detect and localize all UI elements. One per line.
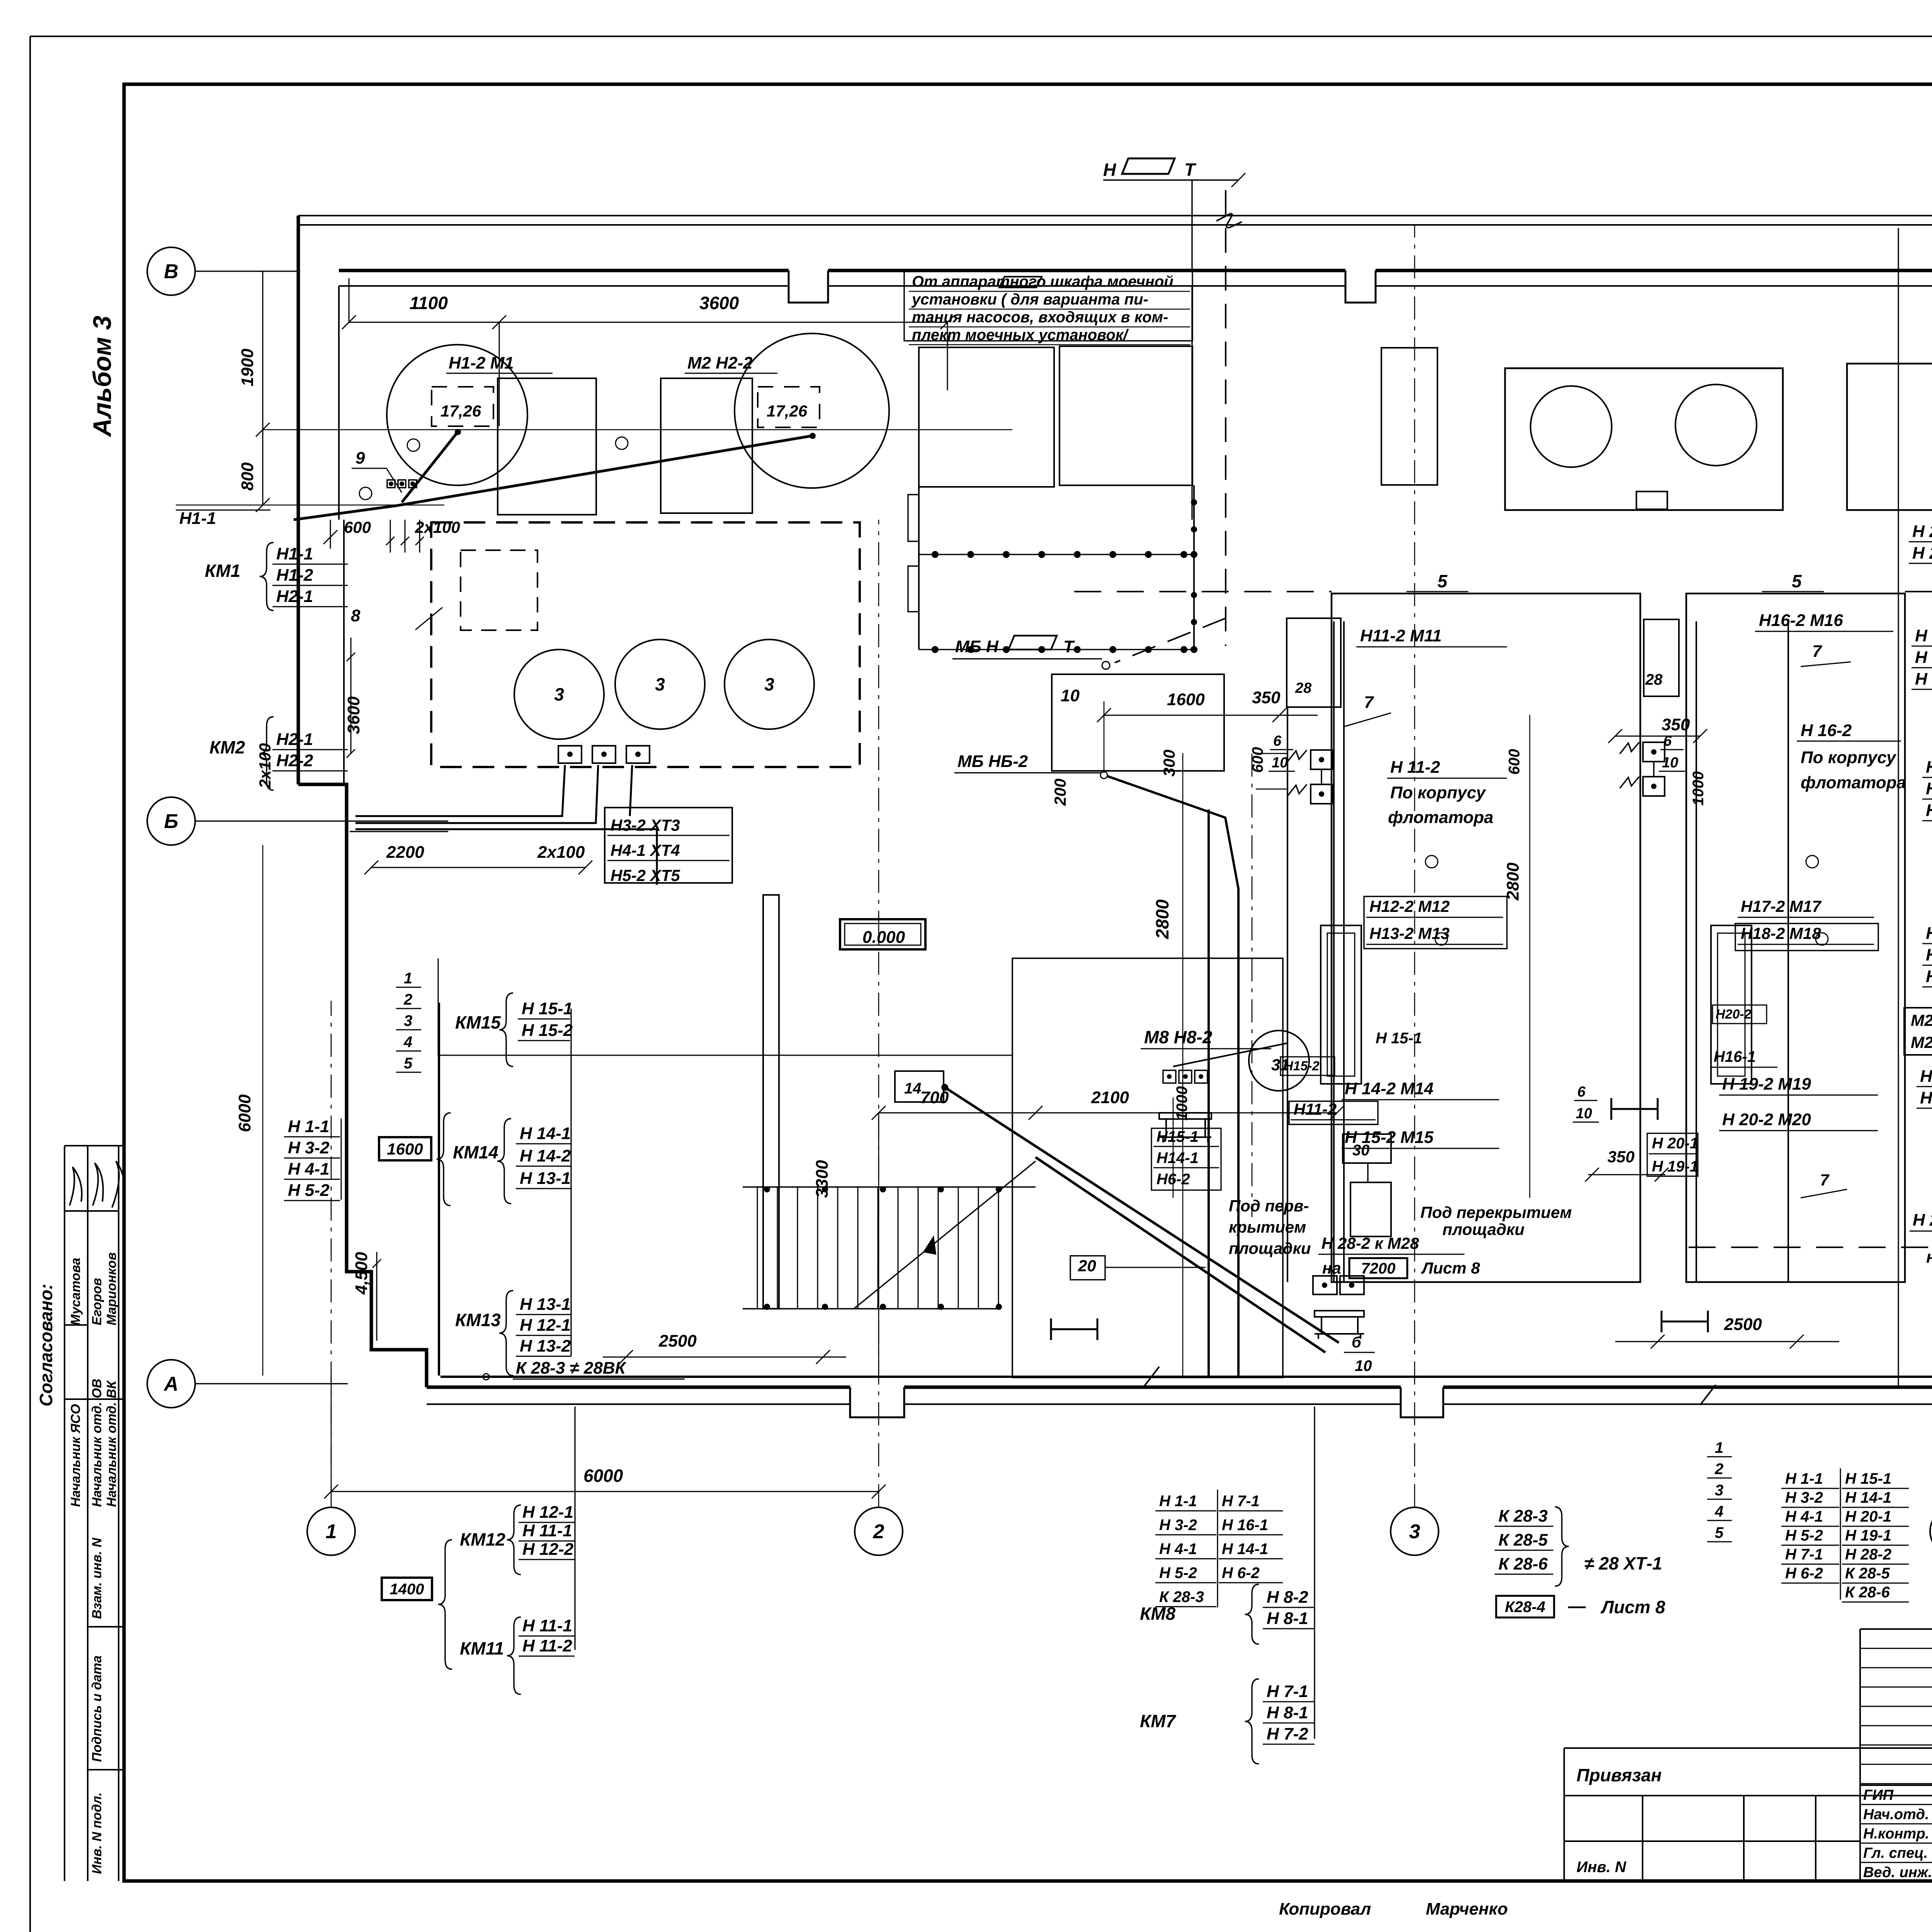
svg-text:14: 14	[904, 1080, 922, 1097]
svg-text:8: 8	[351, 606, 361, 625]
svg-text:2х100: 2х100	[415, 518, 460, 536]
svg-text:Н 11-1: Н 11-1	[522, 1616, 572, 1635]
svg-text:Привязан: Привязан	[1577, 1765, 1662, 1785]
svg-text:Н 20-2: Н 20-2	[1912, 544, 1932, 563]
svg-text:1600: 1600	[1167, 690, 1205, 709]
svg-text:А: А	[163, 1373, 179, 1395]
svg-text:Егоров: Егоров	[90, 1278, 104, 1325]
svg-text:Н 6-2: Н 6-2	[1785, 1565, 1823, 1582]
svg-text:6: 6	[1663, 733, 1672, 749]
svg-text:Н 11-2: Н 11-2	[1390, 758, 1440, 777]
svg-text:Н 19-2: Н 19-2	[1915, 670, 1932, 689]
svg-text:Н16-2: Н16-2	[1920, 1088, 1932, 1107]
svg-text:Н 17-1: Н 17-1	[1926, 779, 1932, 798]
svg-text:М23 Н 23-2: М23 Н 23-2	[1911, 1011, 1932, 1029]
svg-text:7: 7	[1820, 1171, 1830, 1189]
svg-text:Н 18-1: Н 18-1	[1926, 758, 1932, 777]
svg-text:Н 8-1: Н 8-1	[1267, 1609, 1308, 1628]
svg-text:20: 20	[1078, 1257, 1096, 1275]
svg-text:Н 7-1: Н 7-1	[1267, 1682, 1308, 1701]
svg-text:на: на	[1322, 1259, 1341, 1277]
svg-text:Н 12-2: Н 12-2	[522, 1540, 574, 1559]
svg-text:К 28-6: К 28-6	[1498, 1554, 1548, 1573]
svg-text:флотатора: флотатора	[1801, 773, 1906, 792]
svg-text:К28-4: К28-4	[1505, 1599, 1546, 1616]
svg-text:3: 3	[764, 674, 774, 694]
svg-text:Н 13-1: Н 13-1	[520, 1295, 571, 1314]
svg-text:Н 12-1: Н 12-1	[522, 1503, 573, 1522]
svg-text:Н 14-1: Н 14-1	[1222, 1541, 1268, 1558]
svg-text:≠ 28 ХТ-1: ≠ 28 ХТ-1	[1584, 1553, 1662, 1573]
svg-text:К 28-5: К 28-5	[1498, 1531, 1548, 1549]
svg-text:тания насосов, входящих в ком-: тания насосов, входящих в ком-	[912, 309, 1168, 326]
svg-text:700: 700	[920, 1088, 949, 1107]
svg-text:6000: 6000	[583, 1466, 623, 1486]
svg-text:Н 1-1: Н 1-1	[288, 1117, 330, 1136]
svg-text:2: 2	[403, 991, 412, 1008]
svg-text:350: 350	[1662, 715, 1690, 734]
svg-text:7200: 7200	[1361, 1260, 1396, 1277]
svg-text:Н4-1 ХТ4: Н4-1 ХТ4	[611, 841, 680, 859]
svg-text:КМ7: КМ7	[1140, 1711, 1177, 1731]
svg-text:КМ1: КМ1	[205, 561, 240, 581]
svg-text:Н 4-1: Н 4-1	[288, 1160, 330, 1179]
svg-text:Н 11-2: Н 11-2	[522, 1636, 572, 1655]
svg-text:Т: Т	[1063, 637, 1075, 656]
svg-text:Н 15-2 М15: Н 15-2 М15	[1345, 1128, 1434, 1147]
svg-text:Н 17-2: Н 17-2	[1926, 967, 1932, 986]
svg-text:КМ12: КМ12	[460, 1529, 505, 1549]
svg-text:4,500: 4,500	[352, 1252, 371, 1295]
svg-text:Марионков: Марионков	[104, 1252, 119, 1325]
svg-text:Н 20-1: Н 20-1	[1912, 522, 1932, 541]
svg-text:2800: 2800	[1503, 862, 1522, 901]
svg-text:800: 800	[238, 462, 257, 491]
svg-text:2100: 2100	[1091, 1088, 1129, 1107]
svg-text:Н14-1: Н14-1	[1156, 1150, 1199, 1167]
svg-text:Начальник ЯСО: Начальник ЯСО	[68, 1404, 83, 1507]
svg-text:Н 14-1: Н 14-1	[1845, 1489, 1891, 1506]
svg-text:2: 2	[873, 1520, 884, 1543]
svg-text:Н 15-2: Н 15-2	[522, 1021, 573, 1040]
svg-text:плект моечных установок/: плект моечных установок/	[912, 327, 1129, 344]
svg-text:Н 19-1: Н 19-1	[1915, 626, 1932, 645]
svg-text:17,26: 17,26	[440, 402, 481, 420]
svg-text:200: 200	[1051, 779, 1069, 806]
svg-text:Вед. инж.: Вед. инж.	[1863, 1864, 1932, 1881]
svg-text:КМ11: КМ11	[460, 1638, 504, 1658]
svg-text:600: 600	[1249, 747, 1266, 773]
svg-text:Н6-2: Н6-2	[1156, 1171, 1190, 1188]
svg-text:—: —	[1568, 1596, 1586, 1616]
svg-text:М2 Н2-2: М2 Н2-2	[687, 354, 753, 372]
svg-text:Н 16-1: Н 16-1	[1222, 1517, 1268, 1534]
svg-text:Н3-2 ХТ3: Н3-2 ХТ3	[611, 816, 680, 834]
svg-text:1: 1	[326, 1520, 337, 1543]
svg-text:4: 4	[1714, 1503, 1723, 1520]
svg-text:0.000: 0.000	[862, 928, 905, 947]
svg-text:крытием: крытием	[1229, 1218, 1306, 1236]
svg-text:КМ2: КМ2	[209, 737, 245, 757]
svg-text:Н 20-1: Н 20-1	[1652, 1135, 1698, 1152]
svg-text:М8 Н8-2: М8 Н8-2	[1144, 1027, 1213, 1047]
svg-text:Н15-1: Н15-1	[1156, 1128, 1199, 1145]
svg-text:10: 10	[1662, 755, 1678, 771]
svg-text:МБ Н: МБ Н	[955, 637, 999, 656]
svg-text:Н 5-2: Н 5-2	[288, 1181, 330, 1200]
svg-text:площадки: площадки	[1229, 1239, 1311, 1257]
svg-text:2500: 2500	[658, 1332, 697, 1350]
svg-text:Т: Т	[1184, 160, 1197, 180]
svg-text:3600: 3600	[344, 696, 363, 734]
svg-text:флотатора: флотатора	[1388, 808, 1493, 827]
svg-text:28: 28	[1295, 680, 1312, 696]
svg-text:4: 4	[403, 1034, 412, 1051]
svg-text:1: 1	[1715, 1439, 1723, 1456]
svg-text:Инв. N: Инв. N	[1577, 1859, 1626, 1876]
svg-text:Н17-2 М17: Н17-2 М17	[1741, 897, 1821, 915]
svg-text:Н 20-1: Н 20-1	[1845, 1508, 1891, 1525]
svg-text:Н 19-2 М19: Н 19-2 М19	[1722, 1075, 1811, 1094]
svg-text:Н 5-2: Н 5-2	[1785, 1527, 1823, 1544]
svg-text:В: В	[164, 260, 179, 283]
svg-text:3300: 3300	[813, 1160, 832, 1198]
svg-text:Н 7-2: Н 7-2	[1267, 1725, 1308, 1743]
svg-text:Согласовано:: Согласовано:	[36, 1284, 56, 1406]
svg-text:Лист 8: Лист 8	[1421, 1259, 1480, 1277]
svg-text:По корпусу: По корпусу	[1801, 748, 1897, 767]
svg-text:МБ НБ-2: МБ НБ-2	[957, 752, 1028, 771]
svg-text:Н2-1: Н2-1	[276, 730, 313, 749]
svg-text:Марченко: Марченко	[1426, 1900, 1508, 1918]
svg-text:Нач.отд.: Нач.отд.	[1863, 1806, 1929, 1823]
svg-text:7: 7	[1812, 642, 1823, 661]
svg-text:КМ14: КМ14	[453, 1142, 498, 1162]
svg-text:3: 3	[655, 674, 665, 694]
svg-text:5: 5	[1792, 571, 1802, 591]
svg-text:Инв. N подл.: Инв. N подл.	[90, 1792, 104, 1874]
svg-text:Н 6-2: Н 6-2	[1222, 1565, 1260, 1582]
svg-text:Н 14-1: Н 14-1	[520, 1124, 571, 1143]
svg-text:КМ15: КМ15	[455, 1012, 501, 1032]
svg-text:Взам. инв. N: Взам. инв. N	[90, 1537, 104, 1619]
svg-text:Н 18-1: Н 18-1	[1915, 648, 1932, 667]
svg-text:2500: 2500	[1724, 1315, 1762, 1334]
svg-text:Н18-2 М18: Н18-2 М18	[1741, 924, 1821, 942]
svg-text:Под перв-: Под перв-	[1229, 1197, 1309, 1215]
svg-text:Начальник отд. ВК: Начальник отд. ВК	[104, 1380, 119, 1507]
svg-text:Н 4-1: Н 4-1	[1159, 1541, 1197, 1558]
svg-text:1: 1	[404, 970, 412, 987]
svg-text:5: 5	[1437, 571, 1448, 591]
svg-text:10: 10	[1576, 1105, 1592, 1122]
svg-text:Н.контр.: Н.контр.	[1863, 1826, 1929, 1842]
svg-text:Н 16-2: Н 16-2	[1801, 721, 1852, 740]
svg-text:3: 3	[404, 1012, 412, 1029]
svg-text:Н 25-1 к М25: Н 25-1 к М25	[1913, 1211, 1932, 1230]
svg-text:300: 300	[1160, 750, 1178, 777]
svg-text:КМ8: КМ8	[1140, 1604, 1176, 1624]
svg-text:К 28-6: К 28-6	[1845, 1584, 1890, 1601]
svg-text:Н16-1: Н16-1	[1714, 1048, 1756, 1065]
svg-text:Н 17-1: Н 17-1	[1926, 924, 1932, 943]
svg-text:Н20-2: Н20-2	[1716, 1007, 1752, 1022]
svg-text:2800: 2800	[1152, 899, 1172, 939]
svg-text:Н1-2 М1: Н1-2 М1	[449, 354, 514, 372]
svg-text:28: 28	[1645, 671, 1663, 688]
svg-text:Н16-2 М16: Н16-2 М16	[1759, 611, 1843, 630]
svg-text:3: 3	[554, 684, 564, 704]
svg-text:1900: 1900	[238, 349, 257, 386]
svg-text:3: 3	[1715, 1482, 1723, 1499]
svg-text:Н12-2 М12: Н12-2 М12	[1369, 897, 1450, 915]
svg-text:Н 7-1: Н 7-1	[1222, 1493, 1260, 1510]
svg-text:Н 4-1: Н 4-1	[1785, 1508, 1823, 1525]
svg-text:Н1-2: Н1-2	[276, 566, 313, 585]
svg-text:Н 7-1: Н 7-1	[1785, 1546, 1823, 1563]
svg-text:К 28-5: К 28-5	[1845, 1565, 1890, 1582]
svg-text:Н: Н	[1103, 160, 1116, 180]
svg-text:Н 11-1: Н 11-1	[522, 1521, 572, 1540]
svg-text:5: 5	[404, 1055, 413, 1072]
svg-text:Н16-1: Н16-1	[1920, 1067, 1932, 1086]
svg-text:Н 15-1: Н 15-1	[522, 999, 573, 1018]
svg-text:Б: Б	[164, 810, 179, 833]
svg-text:Под перекрытием: Под перекрытием	[1420, 1203, 1572, 1221]
svg-text:Н 15-1: Н 15-1	[1845, 1470, 1891, 1487]
svg-text:К 28-3: К 28-3	[1498, 1507, 1548, 1526]
svg-text:Начальник отд. ОВ: Начальник отд. ОВ	[90, 1379, 104, 1507]
svg-text:Н1-1: Н1-1	[179, 509, 216, 528]
svg-text:600: 600	[1506, 749, 1523, 775]
svg-text:1000: 1000	[1173, 1086, 1190, 1121]
svg-text:Н 3-2: Н 3-2	[288, 1138, 330, 1157]
svg-text:Н 28-2 к М28: Н 28-2 к М28	[1321, 1234, 1419, 1252]
svg-text:Н 13-1: Н 13-1	[520, 1169, 571, 1188]
svg-text:Н 18-2: Н 18-2	[1926, 801, 1932, 820]
svg-text:5: 5	[1715, 1524, 1724, 1541]
svg-text:Н1-1: Н1-1	[276, 544, 313, 563]
svg-text:Н5-2 ХТ5: Н5-2 ХТ5	[611, 866, 680, 884]
svg-text:Н 8-1: Н 8-1	[1267, 1703, 1308, 1722]
svg-text:Н 28-2: Н 28-2	[1845, 1546, 1891, 1563]
svg-text:Н11-2 М11: Н11-2 М11	[1360, 626, 1442, 645]
svg-text:10: 10	[1272, 755, 1288, 771]
svg-text:Н 20-2 М20: Н 20-2 М20	[1722, 1110, 1811, 1129]
svg-text:Н 19-1: Н 19-1	[1652, 1158, 1698, 1175]
svg-text:1400: 1400	[390, 1581, 424, 1598]
svg-text:КМ13: КМ13	[455, 1310, 501, 1330]
svg-text:2х100: 2х100	[537, 843, 585, 862]
svg-text:Н 13-2: Н 13-2	[520, 1337, 571, 1355]
svg-text:М24 н 24-2: М24 н 24-2	[1911, 1033, 1932, 1051]
svg-text:Н 3-2: Н 3-2	[1159, 1517, 1197, 1534]
svg-text:Лист 8: Лист 8	[1600, 1597, 1665, 1617]
svg-text:Подпись и дата: Подпись и дата	[90, 1655, 104, 1762]
svg-text:Гл. спец.: Гл. спец.	[1863, 1845, 1928, 1861]
svg-text:3600: 3600	[699, 293, 739, 313]
svg-text:9: 9	[355, 449, 365, 468]
svg-text:17,26: 17,26	[767, 402, 808, 420]
svg-text:Альбом 3: Альбом 3	[88, 316, 116, 437]
svg-text:7: 7	[1364, 693, 1374, 712]
svg-text:1600: 1600	[387, 1140, 423, 1158]
svg-text:площадки: площадки	[1442, 1220, 1524, 1238]
svg-text:Н 15-1: Н 15-1	[1376, 1030, 1422, 1047]
svg-text:К 28-3 ≠ 28ВК: К 28-3 ≠ 28ВК	[516, 1359, 627, 1378]
svg-text:10: 10	[1061, 686, 1080, 705]
svg-text:Н 19-1: Н 19-1	[1845, 1527, 1891, 1544]
svg-text:Н15-2: Н15-2	[1284, 1059, 1320, 1073]
svg-text:Копировал: Копировал	[1279, 1900, 1371, 1918]
svg-text:Н 3-2: Н 3-2	[1785, 1489, 1823, 1506]
svg-text:Н2-2: Н2-2	[276, 751, 313, 770]
svg-text:Н 1-1: Н 1-1	[1785, 1470, 1823, 1487]
svg-text:1000: 1000	[1690, 771, 1707, 806]
svg-text:Н 14-2 М14: Н 14-2 М14	[1345, 1079, 1434, 1098]
svg-text:1100: 1100	[410, 293, 448, 313]
svg-text:Н 16-1: Н 16-1	[1926, 946, 1932, 964]
svg-text:2: 2	[1714, 1461, 1723, 1478]
svg-text:6: 6	[1577, 1084, 1586, 1100]
svg-text:Н 5-2: Н 5-2	[1159, 1565, 1197, 1582]
svg-text:Н11-2: Н11-2	[1294, 1100, 1337, 1118]
svg-text:Н 14-2: Н 14-2	[520, 1146, 571, 1165]
svg-text:350: 350	[1252, 688, 1281, 707]
svg-text:Н2-1: Н2-1	[276, 587, 313, 606]
svg-text:6: 6	[1273, 733, 1282, 749]
svg-text:10: 10	[1355, 1357, 1372, 1374]
svg-text:От аппаратного шкафа моечной: От аппаратного шкафа моечной	[912, 273, 1173, 290]
svg-text:350: 350	[1607, 1148, 1634, 1166]
svg-text:2200: 2200	[386, 843, 424, 862]
svg-text:Н 12-1: Н 12-1	[520, 1316, 571, 1335]
svg-text:установки ( для вариант: установки ( для варианта пи-	[911, 291, 1148, 308]
svg-text:Мусатова: Мусатова	[68, 1258, 83, 1325]
svg-text:К 28-3: К 28-3	[1159, 1588, 1204, 1605]
svg-text:Н 8-2: Н 8-2	[1267, 1588, 1308, 1607]
svg-text:По корпусу: По корпусу	[1390, 783, 1486, 802]
svg-text:на: на	[1926, 1248, 1932, 1267]
svg-text:600: 600	[344, 518, 371, 536]
svg-text:3: 3	[1409, 1520, 1420, 1543]
svg-text:6000: 6000	[235, 1094, 254, 1132]
svg-text:Н 1-1: Н 1-1	[1159, 1493, 1197, 1510]
